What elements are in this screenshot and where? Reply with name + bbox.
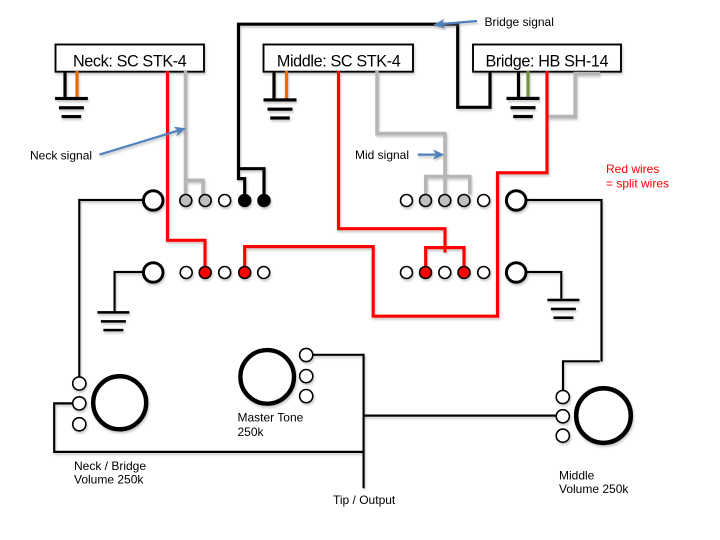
potentiometer Neck/Bridge Volume 250k (93, 376, 146, 429)
wire bridge signal branch to lug 5 (239, 169, 265, 195)
switch lug row1 L3 (219, 195, 231, 207)
svg-text:Neck: SC STK-4: Neck: SC STK-4 (73, 52, 187, 70)
switch common lug top-left (143, 191, 163, 211)
svg-text:250k: 250k (238, 425, 265, 439)
tone pot lug 3 (300, 390, 313, 403)
wire middle orange ground lead (285, 71, 288, 99)
ground middle pickup (264, 98, 297, 119)
middle volume pot lug 1 (556, 390, 569, 403)
wire neck orange ground lead (75, 71, 78, 98)
svg-text:Mid signal: Mid signal (355, 148, 409, 162)
svg-text:Neck signal: Neck signal (30, 149, 92, 163)
svg-text:Tip / Output: Tip / Output (333, 493, 396, 507)
svg-text:Neck / Bridge: Neck / Bridge (74, 459, 146, 473)
pickup box Neck (56, 45, 205, 72)
wire switch top common to volume pot lug 1 (79, 200, 142, 377)
ground left switch (97, 311, 129, 331)
arrow mid signal (418, 149, 444, 159)
wire bridge green ground lead (526, 71, 529, 97)
middle volume pot lug 2 (556, 410, 569, 423)
switch common lug bottom-right (506, 263, 526, 283)
switch lug row1 L5 (258, 195, 270, 207)
wire middle red T-bar to bottom lugs 2,4 (426, 248, 464, 267)
wire bridge signal: bridge box to top bus down to switch lugs 4,5 (239, 24, 491, 194)
switch common lug bottom-left (143, 263, 163, 283)
wire middle red split wire (339, 71, 446, 253)
ground bridge pickup (507, 97, 540, 118)
svg-text:Red wires: Red wires (606, 162, 659, 176)
wire output bus: volume lug2 to tip junction (54, 403, 364, 452)
tone pot lug 2 (300, 370, 313, 383)
svg-text:Volume 250k: Volume 250k (559, 482, 629, 496)
potentiometer Middle Volume 250k (576, 388, 631, 443)
switch lug row2 R1 (401, 267, 413, 279)
svg-text:Middle: Middle (559, 469, 595, 483)
switch lug row1 R2 (420, 195, 432, 207)
svg-text:Master Tone: Master Tone (238, 411, 304, 425)
wire middle gray signal to right switch lugs (377, 71, 445, 194)
switch lug row1 R4 (458, 195, 470, 207)
switch lug row1 L2 (199, 195, 211, 207)
wire middle black ground lead (272, 71, 275, 99)
wire middle gray T-bar over lugs 2-4 (426, 176, 470, 194)
svg-text:Volume 250k: Volume 250k (74, 473, 144, 487)
pickup box Middle (264, 45, 414, 72)
wire neck gray signal to switch lug 1 (184, 71, 188, 194)
wire tone lug1 down to tip output stub (314, 355, 364, 489)
svg-text:Middle: SC STK-4: Middle: SC STK-4 (277, 52, 401, 70)
middle volume pot lug 3 (556, 429, 569, 442)
wire switch bottom common to ground left (115, 272, 142, 311)
potentiometer Master Tone 250k (240, 350, 294, 404)
switch lug row1 L1 (180, 195, 192, 207)
volume pot lug 2 (73, 397, 86, 410)
arrow neck signal (100, 127, 187, 155)
switch lug row2 R4 (458, 267, 470, 279)
tone pot lug 1 (300, 348, 313, 361)
switch lug row2 L5 (258, 267, 270, 279)
ground neck pickup (55, 97, 88, 118)
volume pot lug 1 (73, 377, 86, 390)
switch lug row2 R2 (420, 267, 432, 279)
svg-text:= split wires: = split wires (606, 177, 669, 191)
switch common lug top-right (506, 191, 526, 211)
switch lug row2 R5 (478, 267, 490, 279)
svg-text:Bridge: HB SH-14: Bridge: HB SH-14 (486, 52, 609, 70)
switch lug row1 R5 (478, 195, 490, 207)
volume pot lug 3 (73, 418, 86, 431)
switch lug row2 L4 (239, 267, 251, 279)
wire right switch top common to middle volume lug 1 (527, 200, 602, 362)
ground right switch (547, 299, 579, 319)
svg-text:Bridge signal: Bridge signal (485, 15, 554, 29)
wire to middle volume lug2 (364, 415, 556, 417)
pickup box Bridge (473, 45, 621, 72)
switch lug row2 L1 (180, 267, 192, 279)
switch lug row2 R3 (439, 267, 451, 279)
wire neck red split to switch lug 2 bottom (168, 71, 206, 266)
switch lug row2 L3 (219, 267, 231, 279)
switch lug row1 L4 (239, 195, 251, 207)
switch lug row1 R1 (401, 195, 413, 207)
wire right switch bottom common to ground right (527, 272, 562, 299)
wire bridge gray finish lead (549, 74, 601, 117)
wire bridge red split to left switch bottom lug 4 (245, 71, 547, 316)
wire bridge black ground lead (517, 71, 520, 97)
switch lug row1 R3 (439, 195, 451, 207)
switch lug row2 L2 (199, 267, 211, 279)
wire neck gray branch to switch lug 2 (186, 180, 204, 194)
arrow bridge signal (433, 19, 477, 29)
wire neck black ground lead (63, 71, 66, 98)
